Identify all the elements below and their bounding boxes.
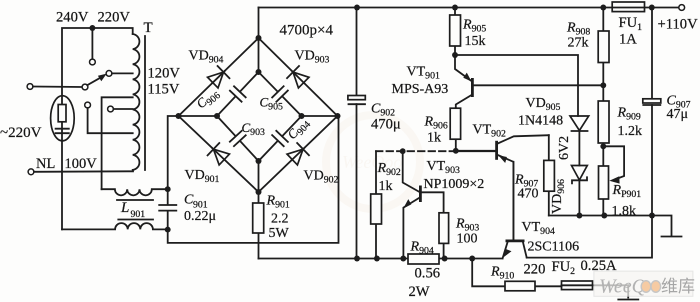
transistor VT904 [512, 162, 514, 240]
node pot bottom [601, 213, 607, 219]
svg-text:240V: 240V [56, 10, 89, 26]
transistor VT903 [403, 151, 420, 192]
node rail C902 bottom [354, 256, 360, 262]
svg-text:1N4148: 1N4148 [518, 114, 563, 129]
transformer T core [144, 36, 146, 170]
svg-text:470μ: 470μ [371, 117, 401, 133]
svg-text:R906: R906 [424, 115, 448, 132]
svg-text:2.2: 2.2 [271, 212, 289, 227]
faint center watermark [326, 115, 420, 209]
svg-text:2W: 2W [409, 284, 430, 300]
wire pole wire [33, 86, 82, 89]
node inner top [256, 69, 262, 75]
svg-text:R909: R909 [617, 106, 641, 123]
label VD906 [550, 179, 567, 214]
terminal +110V [679, 5, 685, 11]
zener VD906 [572, 166, 588, 181]
watermark box [594, 271, 695, 297]
potentiometer RP901 [602, 146, 604, 215]
fuse FU1 [612, 2, 644, 12]
capacitor C905 [271, 85, 288, 102]
resistor R910 [505, 281, 535, 291]
inductor L901 winding b [62, 223, 168, 229]
wire AC return to bridge right vertex [168, 116, 339, 243]
wire VT903 collector to R903 [421, 192, 444, 213]
bridge outer diamond [179, 38, 338, 192]
node zener bottom [576, 213, 582, 219]
node rail R903 bottom [442, 256, 448, 262]
wire VT901 base to R908 column [474, 84, 604, 86]
diode VD903 [286, 65, 311, 90]
node rail VT903 emitter [400, 256, 406, 262]
svg-text:RP901: RP901 [612, 183, 642, 200]
svg-text:1.2k: 1.2k [618, 124, 643, 139]
node choke2 output [165, 227, 171, 233]
svg-text:100: 100 [457, 232, 478, 247]
resistor R906 [455, 108, 457, 151]
svg-text:27k: 27k [568, 36, 589, 51]
tap terminal 115V [108, 106, 114, 112]
node inner bottom [256, 158, 262, 164]
svg-text:WeeQ: WeeQ [599, 276, 647, 298]
resistor R909 [602, 85, 604, 146]
diode VD901 [206, 142, 231, 167]
node R905 bottom [452, 52, 458, 58]
resistor R908 [602, 8, 604, 86]
resistor R907 [548, 135, 550, 215]
node rail R902 bottom [374, 256, 380, 262]
label C906 [193, 85, 223, 114]
node top rail junction [89, 25, 95, 31]
svg-text:1A: 1A [619, 32, 637, 48]
tap terminal 120V selector [85, 102, 91, 108]
resistor R904 [408, 254, 439, 264]
svg-text:15k: 15k [465, 34, 486, 49]
capacitor C906 [229, 85, 246, 102]
wire ground stub bottom [627, 285, 629, 297]
switch contact 240V [90, 59, 96, 65]
wire top rail [259, 7, 679, 9]
label C904 [284, 115, 313, 144]
resistor R901 [258, 192, 260, 259]
diode VD902 [286, 142, 311, 167]
bridge connector wires [179, 38, 338, 192]
terminal AC line input [27, 84, 33, 90]
node inner left [214, 113, 220, 119]
transformer T winding [133, 34, 140, 170]
svg-text:470: 470 [518, 187, 539, 202]
switch pole [82, 84, 88, 90]
wire R910 branch [472, 259, 561, 287]
svg-text:NL: NL [36, 156, 55, 172]
svg-text:R904: R904 [410, 240, 434, 257]
capacitor C901 [159, 189, 176, 229]
ground bottom [618, 299, 638, 301]
svg-text:4700p×4: 4700p×4 [280, 23, 334, 39]
wire bottom rail left part [259, 258, 503, 260]
svg-text:R910: R910 [490, 265, 514, 282]
wire top-left rail and left vertical [62, 28, 133, 229]
svg-text:VT902: VT902 [473, 123, 506, 140]
transistor VT902 [456, 150, 495, 152]
svg-text:1k: 1k [427, 131, 441, 146]
capacitor C903 [229, 130, 247, 147]
node rail R905 [452, 5, 458, 11]
svg-text:VD901: VD901 [185, 168, 220, 185]
pot wiper [603, 146, 624, 179]
wire 100V line [34, 170, 133, 173]
svg-text:VD903: VD903 [295, 49, 330, 66]
svg-text:VT903: VT903 [427, 159, 460, 176]
wire common 0V rail [549, 215, 652, 217]
svg-text:R901: R901 [266, 194, 290, 211]
capacitor C904 [271, 130, 288, 147]
resistor R905 [454, 8, 456, 56]
node VT903 base tap [400, 148, 406, 154]
svg-text:6V2: 6V2 [557, 136, 572, 160]
wire 240V selector contact lead [91, 28, 93, 59]
svg-text:T: T [144, 20, 153, 36]
svg-text:0.22μ: 0.22μ [184, 209, 216, 224]
node rail C907 [649, 5, 655, 11]
svg-text:220: 220 [524, 262, 546, 278]
neon lamp NL envelope [51, 96, 75, 141]
ground right [662, 236, 682, 238]
svg-text:MPS-A93: MPS-A93 [392, 82, 449, 97]
neon lamp series resistor [58, 105, 66, 122]
svg-text:5W: 5W [269, 226, 290, 241]
node rail R908 [600, 5, 606, 11]
svg-text:+110V: +110V [658, 17, 699, 33]
fuse FU2 [562, 284, 629, 286]
switch arm with arrow [87, 77, 102, 86]
label 6V2 [557, 136, 572, 160]
wire bridge left vertex to choke1 node [168, 116, 179, 189]
resistor R903 [443, 213, 445, 259]
svg-text:VT901: VT901 [407, 65, 440, 82]
svg-text:115V: 115V [148, 82, 180, 98]
neon lamp electrodes [56, 129, 69, 134]
svg-text:~220V: ~220V [0, 125, 42, 141]
node rail R910 branch [469, 256, 475, 262]
wire tap 115V [114, 108, 133, 110]
svg-text:FU2: FU2 [552, 259, 576, 277]
svg-text:2SC1106: 2SC1106 [528, 240, 580, 255]
capacitor C907 [651, 8, 653, 216]
capacitor C902 [356, 8, 358, 259]
bridge inner diamond [217, 72, 302, 161]
resistor R902 [375, 151, 377, 258]
node choke1 output [165, 186, 171, 192]
wire collector rail to common node [527, 216, 652, 258]
inductor L901 core bars [117, 200, 153, 220]
svg-text:220V: 220V [98, 10, 131, 26]
svg-text:R905: R905 [462, 18, 486, 35]
transistor VT901 [455, 55, 471, 81]
svg-text:VD902: VD902 [304, 169, 339, 186]
node bridge right [335, 113, 341, 119]
svg-text:901: 901 [131, 209, 146, 220]
svg-text:VD905: VD905 [526, 96, 561, 113]
svg-text:L: L [120, 200, 129, 216]
wire tap output to choke L901a [102, 97, 133, 189]
svg-text:NP1009×2: NP1009×2 [424, 177, 485, 192]
wire ground stub right [652, 216, 672, 236]
diode VD904 [206, 65, 231, 90]
svg-text:1.8k: 1.8k [612, 204, 637, 219]
svg-text:VT904: VT904 [522, 220, 555, 237]
wire dashed base bus [376, 150, 456, 152]
diode VD905 [570, 116, 589, 131]
wire bridge top stub [258, 8, 260, 39]
svg-text:100V: 100V [65, 156, 98, 172]
svg-text:47μ: 47μ [667, 107, 689, 122]
switch contact 220V [106, 71, 112, 77]
svg-text:VD904: VD904 [189, 49, 224, 66]
svg-text:维库: 维库 [661, 277, 695, 296]
wire emitter rail to VD905 [455, 55, 578, 116]
svg-text:0.56: 0.56 [415, 266, 441, 282]
node bridge top [256, 35, 262, 41]
node R909 bottom [600, 143, 606, 149]
node base R908 [600, 82, 606, 88]
wire selector lead [88, 108, 133, 133]
node bridge bottom [256, 189, 262, 195]
node inner right [299, 113, 305, 119]
node R906 bottom [453, 148, 459, 154]
svg-text:FU1: FU1 [619, 15, 643, 33]
wire 220V tap [112, 72, 133, 74]
terminal NL 100V output [28, 169, 34, 175]
node common C907 [649, 213, 655, 219]
svg-text:120V: 120V [148, 66, 181, 82]
node rail C902 [354, 5, 360, 11]
node bridge left [176, 113, 182, 119]
svg-text:1k: 1k [379, 179, 393, 194]
inductor L901 winding a [102, 189, 168, 195]
